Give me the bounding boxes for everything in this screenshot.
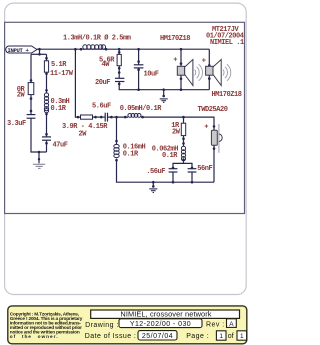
wire	[46, 72, 48, 93]
resistor 5.1R 11-17W	[44, 61, 48, 72]
wires caps to rail	[172, 172, 174, 182]
node A (input junction)	[38, 48, 41, 51]
wire: right branch down	[46, 54, 48, 61]
wire: input drop	[39, 49, 41, 54]
svg-text:TWD25A20: TWD25A20	[198, 106, 228, 114]
wire	[46, 140, 48, 152]
capacitor 20uF	[115, 77, 124, 79]
wire: to ground	[38, 152, 40, 163]
outer rounded sheet border	[5, 3, 247, 294]
svg-text:0.1R: 0.1R	[123, 150, 139, 158]
svg-text:10uF: 10uF	[144, 71, 159, 79]
ground (left section)	[33, 164, 45, 168]
capacitor 3.3uF	[27, 114, 36, 116]
svg-text:INPUT +: INPUT +	[8, 47, 30, 54]
wire	[141, 117, 214, 130]
wire	[108, 116, 129, 118]
capacitor 47uF	[42, 136, 51, 138]
title box NIMIEL, crossover network	[91, 310, 240, 318]
svg-text:HM170Z18: HM170Z18	[212, 91, 242, 99]
node: 0.16mH branch	[115, 116, 118, 119]
tweeter TWD25A20	[213, 125, 216, 128]
svg-text:HM170Z18: HM170Z18	[160, 35, 190, 43]
svg-text:1: 1	[240, 333, 244, 340]
node tee	[38, 53, 41, 56]
wire	[31, 118, 47, 152]
svg-text:NIMIEL, crossover network: NIMIEL, crossover network	[120, 309, 211, 318]
svg-text:.56uF: .56uF	[146, 168, 165, 176]
svg-text:11-17W: 11-17W	[50, 70, 74, 78]
resistor 3.9R-4.15R 2W	[81, 115, 93, 119]
wire	[93, 116, 106, 118]
svg-text:+: +	[202, 58, 206, 66]
shunt inductor 0.16mH 0.1R	[116, 117, 118, 144]
wire	[30, 95, 32, 114]
inductor 0.3mH 0.1R	[44, 93, 48, 113]
svg-text:Rev :: Rev :	[206, 321, 225, 328]
svg-text:0.1R: 0.1R	[51, 105, 67, 113]
title block	[8, 306, 247, 344]
resistor 5.6R 4W	[117, 54, 121, 65]
svg-text:1.3mH/0.1R Ø 2.5mm: 1.3mH/0.1R Ø 2.5mm	[63, 34, 131, 43]
capacitor 10uF	[134, 64, 144, 66]
wire: row-2 feed drop from node	[75, 49, 80, 117]
svg-text:2W: 2W	[172, 129, 181, 137]
capacitor 56nF	[188, 168, 197, 170]
svg-text:5.6uF: 5.6uF	[92, 103, 111, 111]
svg-text:Drawing :: Drawing :	[85, 322, 119, 329]
resistor R 0R 2W	[28, 83, 34, 95]
inductor 0.05mH/0.1R	[124, 116, 127, 119]
resistor 1R 2W	[181, 123, 185, 135]
wire: to tweeter bottom rail	[117, 159, 215, 183]
svg-text:Page :: Page :	[186, 333, 209, 340]
svg-text:25/07/04: 25/07/04	[142, 333, 173, 340]
node: branch join	[38, 151, 41, 154]
svg-text:1: 1	[219, 333, 223, 340]
speaker LS2 HM170Z18	[208, 49, 210, 66]
inductor 0.062mH 0.1R	[181, 146, 185, 160]
svg-text:2W: 2W	[79, 130, 88, 138]
svg-text:NIMIEL .1: NIMIEL .1	[210, 39, 244, 47]
inductor L1 1.3mH	[80, 48, 83, 51]
svg-text:3.3uF: 3.3uF	[7, 120, 26, 128]
capacitor 5.6uF	[104, 113, 106, 122]
svg-text:0.05mH/0.1R: 0.05mH/0.1R	[120, 105, 163, 113]
wire to mid rail	[119, 82, 209, 90]
ground (mid rail)	[162, 88, 165, 91]
wire: main top rail y=49.2	[37, 48, 209, 50]
svg-text:5.1R: 5.1R	[51, 61, 67, 69]
connector INPUT+	[6, 46, 37, 54]
node: 5.6R branch	[118, 48, 121, 51]
wire: tee horizontal	[31, 53, 47, 55]
svg-text:+: +	[204, 124, 208, 132]
svg-text:A: A	[229, 321, 234, 328]
node to row-2 drop	[74, 48, 77, 51]
svg-text:o f t h e o w n e r: o f t h e o w n e r .	[10, 334, 58, 340]
copyright text	[10, 311, 83, 340]
svg-text:47uF: 47uF	[53, 141, 68, 149]
svg-text:Date of Issue :: Date of Issue :	[85, 333, 136, 340]
svg-text:Y12-202/00 - 030: Y12-202/00 - 030	[130, 321, 191, 328]
svg-text:2W: 2W	[17, 92, 26, 100]
capacitor .56uF	[169, 168, 178, 170]
ground (tweeter rail)	[152, 181, 155, 184]
svg-text:+: +	[173, 57, 177, 65]
svg-text:20uF: 20uF	[95, 79, 110, 87]
node: 1R branch on row2	[182, 116, 185, 119]
wire	[46, 113, 48, 137]
wire: left branch down	[30, 54, 32, 82]
svg-text:56nF: 56nF	[197, 165, 212, 173]
node: 10uF branch	[137, 48, 140, 51]
svg-text:0.1R: 0.1R	[162, 152, 178, 160]
inner schematic frame	[5, 22, 245, 213]
svg-text:of: of	[228, 333, 234, 340]
svg-text:4W: 4W	[102, 61, 111, 69]
speaker LS1 HM170Z18	[180, 48, 183, 51]
wire: splitter	[173, 160, 184, 169]
